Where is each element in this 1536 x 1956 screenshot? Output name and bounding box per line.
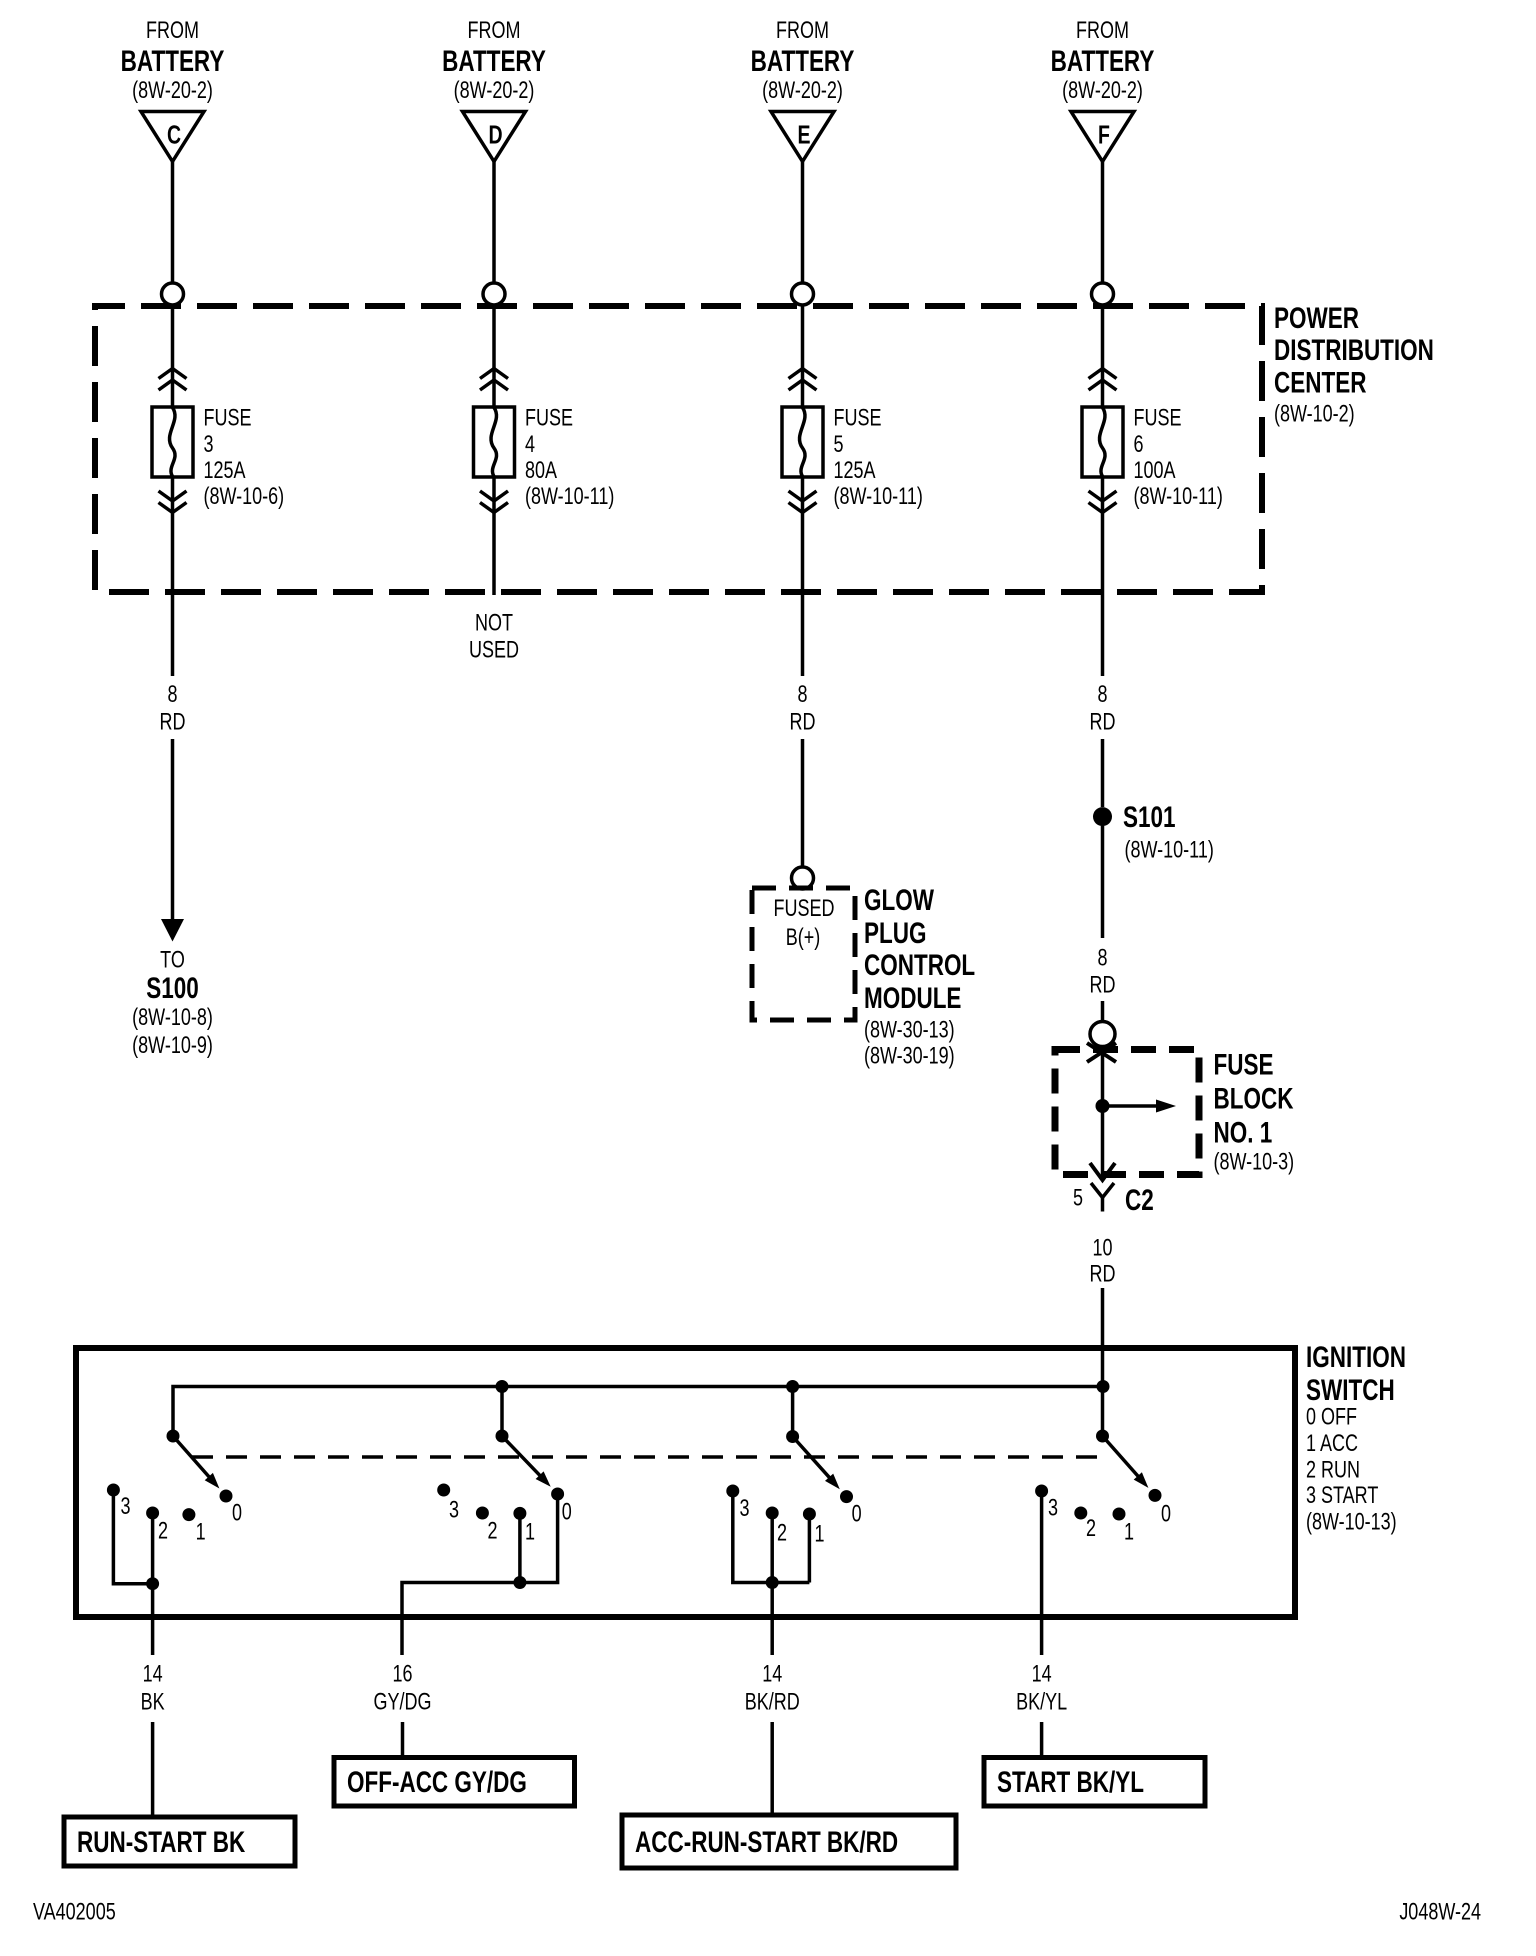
- svg-text:VA402005: VA402005: [33, 1899, 116, 1925]
- wire: 8 RD into fuse block: [1101, 1001, 1105, 1022]
- connector pin chevrons (out of PDC) below fuse 4: [480, 477, 508, 595]
- svg-text:4: 4: [525, 432, 535, 458]
- connector ring at PDC boundary, feed E: [792, 283, 814, 305]
- svg-text:C: C: [167, 120, 181, 149]
- svg-text:0 OFF: 0 OFF: [1306, 1404, 1357, 1430]
- svg-text:2 RUN: 2 RUN: [1306, 1457, 1360, 1483]
- svg-text:5: 5: [834, 432, 844, 458]
- svg-text:2: 2: [158, 1518, 168, 1544]
- svg-text:3: 3: [1048, 1495, 1058, 1521]
- switch wafer 4 movable arm (points to position 0): [1103, 1436, 1149, 1488]
- connector X symbol at fuse block boundary: [1087, 1043, 1116, 1062]
- svg-text:0: 0: [1161, 1501, 1171, 1527]
- switch wafer 1 movable arm (points to position 0): [173, 1436, 219, 1489]
- fuse 6 (100A): [1082, 407, 1123, 477]
- svg-text:FROM: FROM: [468, 18, 521, 44]
- wire: fuse 6 output, 8 RD, upper segment: [1101, 595, 1105, 676]
- svg-text:F: F: [1098, 120, 1110, 149]
- wire: wafer 4 contact 3 to output: [1040, 1494, 1044, 1655]
- wafer 3 contact 3: [726, 1485, 739, 1498]
- svg-text:ACC-RUN-START BK/RD: ACC-RUN-START BK/RD: [635, 1825, 898, 1859]
- connector ring at fuse block: [1090, 1022, 1115, 1047]
- value label: FUSE 4 80A: [525, 405, 614, 510]
- wire inside fuse block: [1101, 1049, 1105, 1180]
- svg-text:0: 0: [852, 1501, 862, 1527]
- svg-text:(8W-10-6): (8W-10-6): [204, 484, 285, 510]
- wire: ring to fuse 3: [171, 305, 175, 407]
- svg-text:USED: USED: [469, 637, 519, 663]
- svg-text:SWITCH: SWITCH: [1306, 1373, 1395, 1407]
- svg-text:0: 0: [232, 1500, 242, 1526]
- wire: wafer 3 contact 2 to output: [770, 1516, 774, 1583]
- branch arrow inside fuse block: [1103, 1100, 1177, 1113]
- svg-text:5: 5: [1073, 1185, 1083, 1211]
- svg-text:3: 3: [449, 1497, 459, 1523]
- wafer 4 contact 0: [1149, 1489, 1162, 1502]
- svg-text:(8W-10-2): (8W-10-2): [1274, 401, 1355, 427]
- svg-text:POWER: POWER: [1274, 301, 1359, 335]
- svg-text:8: 8: [1097, 945, 1107, 971]
- connector C2 female pin symbol: [1091, 1183, 1114, 1212]
- svg-text:1: 1: [196, 1519, 206, 1545]
- label: GLOW PLUG CONTROL MODULE: [864, 883, 975, 1070]
- svg-text:J048W-24: J048W-24: [1399, 1899, 1481, 1925]
- value label: FUSE 3 125A: [204, 405, 285, 510]
- wafer 2 contact 0: [551, 1488, 564, 1501]
- svg-text:FROM: FROM: [146, 18, 199, 44]
- connector pin chevrons (into PDC) above fuse 5: [789, 369, 817, 391]
- wire gauge/color label: 14 BK/YL: [1016, 1661, 1067, 1715]
- svg-text:2: 2: [1086, 1516, 1096, 1542]
- wafer 1 contact 2: [146, 1507, 159, 1520]
- svg-text:RD: RD: [1090, 709, 1116, 735]
- svg-text:S101: S101: [1123, 800, 1176, 834]
- svg-text:S100: S100: [146, 971, 199, 1005]
- connector pin chevrons (out of PDC) below fuse 3: [159, 477, 187, 595]
- off-page connector triangle C (from battery): [141, 112, 204, 162]
- svg-text:14: 14: [143, 1661, 163, 1687]
- svg-text:100A: 100A: [1134, 458, 1177, 484]
- wire: triangle F to PDC connector ring: [1101, 162, 1105, 284]
- svg-text:14: 14: [762, 1661, 782, 1687]
- connector pin chevrons (into PDC) above fuse 4: [480, 369, 508, 391]
- wafer 4 contact 3: [1035, 1485, 1048, 1498]
- wire gauge/color label: 14 BK/RD: [745, 1661, 800, 1715]
- arrowhead to S100: [161, 919, 184, 942]
- wire: 8 RD to splice S101: [1101, 739, 1105, 807]
- fuse 3 (125A): [152, 407, 193, 477]
- wire: fuse 3 to PDC bottom edge: [171, 477, 175, 595]
- svg-text:(8W-10-13): (8W-10-13): [1306, 1509, 1397, 1535]
- svg-text:FUSED: FUSED: [774, 896, 835, 922]
- junction: wafer 1 output: [146, 1577, 159, 1590]
- circuit tag: OFF-ACC GY/DG: [334, 1758, 575, 1807]
- svg-text:0: 0: [562, 1499, 572, 1525]
- Ignition Switch enclosure: [76, 1348, 1295, 1617]
- circuit tag: ACC-RUN-START BK/RD: [622, 1815, 956, 1868]
- wafer 4 contact 1: [1113, 1508, 1126, 1521]
- circuit tag: START BK/YL: [984, 1758, 1205, 1807]
- wire: bus drop to wafer 3: [791, 1387, 795, 1437]
- connector pin chevrons (into PDC) above fuse 3: [159, 369, 187, 391]
- wafer 3 contact 2: [766, 1507, 779, 1520]
- connector pin chevrons (out of PDC) below fuse 6: [1089, 477, 1117, 595]
- svg-text:FUSE: FUSE: [204, 405, 252, 431]
- svg-text:FUSE: FUSE: [834, 405, 882, 431]
- wire: 8 RD to glow plug control module: [801, 739, 805, 867]
- wire: wafer 1 contact 3 to output: [113, 1493, 152, 1584]
- label: S101 (8W-10-11): [1123, 800, 1214, 864]
- svg-text:BK/RD: BK/RD: [745, 1689, 800, 1715]
- wire gauge/color label: 10 RD: [1090, 1235, 1116, 1287]
- switch position dashed guide line: [192, 1455, 1097, 1459]
- svg-text:BK: BK: [141, 1689, 165, 1715]
- wire: fuse 4 to PDC bottom edge: [492, 477, 496, 595]
- wafer 3 contact 1: [803, 1508, 816, 1521]
- svg-text:BATTERY: BATTERY: [751, 44, 855, 78]
- wire: BK/RD to circuit tag: [770, 1722, 774, 1815]
- wafer 1 contact 0: [220, 1490, 233, 1503]
- wire gauge/color label: 8 RD: [1090, 945, 1116, 998]
- wire: fuse 5 output, 8 RD, upper segment: [801, 595, 805, 676]
- svg-text:RUN-START BK: RUN-START BK: [77, 1825, 245, 1859]
- svg-text:GLOW: GLOW: [864, 883, 934, 917]
- svg-text:(8W-30-13): (8W-30-13): [864, 1017, 955, 1043]
- junction: bus / wafer 4 feed: [1097, 1380, 1110, 1393]
- circuit tag: RUN-START BK: [64, 1817, 295, 1866]
- wafer 1 contact 3: [107, 1484, 120, 1497]
- node: FROM BATTERY label (feed D): [442, 18, 546, 104]
- svg-text:3: 3: [120, 1494, 130, 1520]
- svg-text:(8W-20-2): (8W-20-2): [132, 78, 213, 104]
- svg-text:16: 16: [392, 1661, 412, 1687]
- svg-text:IGNITION: IGNITION: [1306, 1340, 1406, 1374]
- Power Distribution Center dashed enclosure: [95, 306, 1262, 592]
- svg-text:8: 8: [1097, 682, 1107, 708]
- wire: bus drop to wafer 2: [500, 1387, 504, 1437]
- svg-text:BK/YL: BK/YL: [1016, 1689, 1067, 1715]
- wire: BK to circuit tag: [151, 1722, 155, 1817]
- wire: wafer 3 contact 1 to output: [808, 1517, 812, 1583]
- wire: wafer 2 contact 1 to output: [518, 1516, 522, 1583]
- junction: wafer 2 output: [513, 1576, 526, 1589]
- off-page connector triangle F (from battery): [1071, 112, 1134, 162]
- Glow Plug Control Module dashed enclosure: [752, 888, 855, 1020]
- junction in fuse block: [1096, 1099, 1110, 1113]
- ignition switch wafer 2 pivot: [496, 1430, 509, 1443]
- svg-text:PLUG: PLUG: [864, 916, 926, 950]
- wire: wafer 1 output through case: [151, 1584, 155, 1655]
- svg-text:(8W-10-9): (8W-10-9): [132, 1033, 213, 1059]
- wire: fuse 5 to PDC bottom edge: [801, 477, 805, 595]
- svg-text:(8W-10-11): (8W-10-11): [1134, 484, 1223, 510]
- wire: fuse 3 output, 8 RD, upper segment: [171, 595, 175, 676]
- svg-text:BATTERY: BATTERY: [442, 44, 546, 78]
- svg-text:RD: RD: [1090, 972, 1116, 998]
- svg-text:(8W-20-2): (8W-20-2): [1062, 78, 1143, 104]
- svg-text:RD: RD: [1090, 1261, 1116, 1287]
- svg-text:125A: 125A: [834, 458, 877, 484]
- svg-text:(8W-10-11): (8W-10-11): [525, 484, 614, 510]
- off-page connector triangle E (from battery): [771, 112, 834, 162]
- wire: triangle D to PDC connector ring: [492, 162, 496, 284]
- svg-text:C2: C2: [1125, 1183, 1154, 1217]
- wire: triangle C to PDC connector ring: [171, 162, 175, 284]
- connector ring at PDC boundary, feed F: [1092, 283, 1114, 305]
- svg-text:NOT: NOT: [475, 610, 513, 636]
- wire: S101 down, 8 RD lower segment: [1101, 826, 1105, 938]
- node: TO S100 label: [132, 947, 213, 1059]
- label: POWER DISTRIBUTION CENTER: [1274, 301, 1434, 428]
- wire gauge/color label: 8 RD: [1090, 682, 1116, 736]
- junction: bus / wafer 3: [786, 1380, 799, 1393]
- node: FROM BATTERY label (feed F): [1051, 18, 1155, 104]
- svg-text:(8W-10-8): (8W-10-8): [132, 1005, 213, 1031]
- svg-text:CONTROL: CONTROL: [864, 948, 975, 982]
- label: FUSE BLOCK NO. 1: [1214, 1047, 1295, 1175]
- svg-text:GY/DG: GY/DG: [374, 1689, 432, 1715]
- svg-text:3: 3: [204, 432, 214, 458]
- svg-text:3 START: 3 START: [1306, 1483, 1378, 1509]
- svg-text:BATTERY: BATTERY: [1051, 44, 1155, 78]
- svg-text:FUSE: FUSE: [1134, 405, 1182, 431]
- ignition switch wafer 1 pivot: [167, 1430, 180, 1443]
- svg-text:10: 10: [1092, 1235, 1112, 1261]
- svg-text:D: D: [488, 120, 502, 149]
- svg-text:1 ACC: 1 ACC: [1306, 1431, 1358, 1457]
- wire: 8 RD to S100 arrow: [171, 739, 175, 921]
- svg-text:2: 2: [487, 1518, 497, 1544]
- svg-text:FROM: FROM: [776, 18, 829, 44]
- svg-text:FUSE: FUSE: [525, 405, 573, 431]
- ignition switch wafer 3 pivot: [786, 1430, 799, 1443]
- svg-text:(8W-20-2): (8W-20-2): [762, 78, 843, 104]
- svg-text:(8W-30-19): (8W-30-19): [864, 1043, 955, 1069]
- connector ring at glow plug control module: [792, 867, 814, 889]
- svg-text:2: 2: [777, 1520, 787, 1546]
- svg-text:1: 1: [525, 1519, 535, 1545]
- wire: wafer 3 output through case: [770, 1583, 774, 1656]
- connector pin chevrons (out of PDC) below fuse 5: [789, 477, 817, 595]
- connector pin chevrons (into PDC) above fuse 6: [1089, 369, 1117, 391]
- wafer 2 contact 2: [476, 1507, 489, 1520]
- svg-text:3: 3: [739, 1496, 749, 1522]
- junction: bus / wafer 2: [496, 1380, 509, 1393]
- wire gauge/color label: 8 RD: [160, 682, 186, 736]
- svg-text:FROM: FROM: [1076, 18, 1129, 44]
- wafer 1 contact 1: [182, 1508, 195, 1521]
- switch wafer 2 movable arm (points to position 0): [502, 1436, 551, 1487]
- svg-text:OFF-ACC GY/DG: OFF-ACC GY/DG: [347, 1765, 527, 1799]
- splice S101: [1093, 807, 1112, 826]
- svg-text:BLOCK: BLOCK: [1214, 1081, 1294, 1115]
- svg-text:CENTER: CENTER: [1274, 365, 1366, 399]
- switch wafer 3 movable arm (points to position 0): [793, 1437, 840, 1490]
- svg-text:8: 8: [797, 682, 807, 708]
- node: FROM BATTERY label (feed C): [121, 18, 225, 104]
- svg-text:80A: 80A: [525, 458, 558, 484]
- svg-text:6: 6: [1134, 432, 1144, 458]
- label: IGNITION SWITCH legend: [1306, 1340, 1406, 1536]
- wire: wafer 3 contact 3 to output: [733, 1494, 810, 1583]
- svg-text:BATTERY: BATTERY: [121, 44, 225, 78]
- svg-text:RD: RD: [160, 709, 186, 735]
- wire: GY/DG to circuit tag: [401, 1722, 405, 1758]
- wire: ring to fuse 5: [801, 305, 805, 407]
- svg-text:(8W-10-11): (8W-10-11): [1125, 837, 1214, 863]
- svg-text:RD: RD: [790, 709, 816, 735]
- svg-text:125A: 125A: [204, 458, 247, 484]
- node: FROM BATTERY label (feed E): [751, 18, 855, 104]
- wafer 2 contact 3: [437, 1484, 450, 1497]
- connector ring at PDC boundary, feed D: [483, 283, 505, 305]
- svg-text:(8W-20-2): (8W-20-2): [454, 78, 535, 104]
- wire: ignition switch feed bus: [173, 1387, 1103, 1437]
- svg-text:FUSE: FUSE: [1214, 1047, 1274, 1081]
- junction: wafer 3 output: [766, 1576, 779, 1589]
- off-page connector triangle D (from battery): [463, 112, 526, 162]
- svg-text:1: 1: [814, 1521, 824, 1547]
- connector ring at PDC boundary, feed C: [162, 283, 184, 305]
- wire: wafer 2 contact 0 to output: [402, 1497, 558, 1655]
- svg-text:DISTRIBUTION: DISTRIBUTION: [1274, 333, 1434, 367]
- wire gauge/color label: 16 GY/DG: [374, 1661, 432, 1715]
- svg-text:8: 8: [167, 682, 177, 708]
- wafer 3 contact 0: [840, 1490, 853, 1503]
- ignition switch wafer 4 pivot: [1096, 1430, 1109, 1443]
- wire: ring to fuse 6: [1101, 305, 1105, 407]
- wafer 4 contact 2: [1074, 1507, 1087, 1520]
- wire: BK/YL to circuit tag: [1040, 1722, 1044, 1758]
- svg-text:1: 1: [1124, 1519, 1134, 1545]
- svg-text:B(+): B(+): [786, 925, 820, 951]
- wire gauge/color label: 14 BK: [141, 1661, 165, 1715]
- svg-text:MODULE: MODULE: [864, 981, 961, 1015]
- wire: triangle E to PDC connector ring: [801, 162, 805, 284]
- fuse 4 (80A): [474, 407, 515, 477]
- value label: FUSE 5 125A: [834, 405, 923, 510]
- svg-text:E: E: [797, 120, 810, 149]
- svg-text:(8W-10-11): (8W-10-11): [834, 484, 923, 510]
- svg-text:14: 14: [1032, 1661, 1052, 1687]
- wire: wafer 1 contact 2 to output: [151, 1516, 155, 1584]
- label: NOT USED (fuse 4 output): [469, 610, 519, 663]
- wire: ring to fuse 4: [492, 305, 496, 407]
- wire: fuse 6 to PDC bottom edge: [1101, 477, 1105, 595]
- wire: 10 RD to ignition switch: [1101, 1288, 1105, 1436]
- wafer 2 contact 1: [513, 1507, 526, 1520]
- value label: FUSE 6 100A: [1134, 405, 1223, 510]
- fuse 5 (125A): [782, 407, 823, 477]
- pin label: FUSED B(+): [774, 896, 835, 951]
- Fuse Block No. 1 dashed enclosure: [1055, 1050, 1199, 1175]
- svg-text:(8W-10-3): (8W-10-3): [1214, 1149, 1295, 1175]
- svg-text:START BK/YL: START BK/YL: [997, 1765, 1144, 1799]
- wire gauge/color label: 8 RD: [790, 682, 816, 736]
- svg-text:NO. 1: NO. 1: [1214, 1115, 1273, 1149]
- svg-text:TO: TO: [160, 947, 185, 973]
- connector pin V at fuse block exit: [1090, 1163, 1115, 1180]
